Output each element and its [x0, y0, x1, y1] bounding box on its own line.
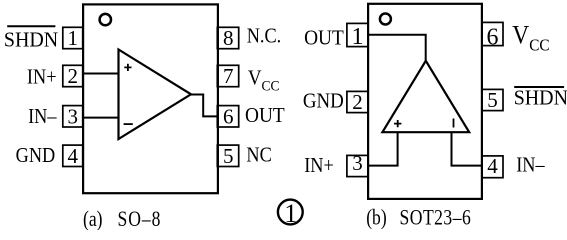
svg-text:1: 1: [352, 24, 364, 50]
svg-text:2: 2: [352, 90, 363, 114]
svg-text:1: 1: [67, 26, 78, 50]
svg-text:IN+: IN+: [304, 154, 334, 177]
svg-text:NC: NC: [246, 143, 271, 166]
svg-text:4: 4: [67, 144, 78, 168]
svg-text:SHDN: SHDN: [4, 29, 58, 52]
svg-text:3: 3: [67, 104, 78, 128]
svg-text:GND: GND: [16, 144, 56, 167]
svg-text:OUT: OUT: [245, 105, 285, 128]
svg-text:GND: GND: [303, 90, 344, 113]
svg-text:N.C.: N.C.: [247, 24, 282, 47]
svg-text:SO–8: SO–8: [118, 207, 162, 230]
svg-text:7: 7: [223, 64, 234, 88]
svg-text:5: 5: [487, 88, 498, 112]
svg-text:IN–: IN–: [516, 153, 545, 176]
svg-text:6: 6: [223, 104, 234, 128]
svg-text:6: 6: [487, 25, 499, 51]
svg-text:2: 2: [67, 64, 78, 88]
svg-text:3: 3: [352, 151, 363, 175]
svg-text:IN–: IN–: [28, 105, 57, 128]
svg-text:4: 4: [487, 154, 498, 178]
svg-text:IN+: IN+: [27, 65, 57, 88]
svg-text:(a): (a): [83, 207, 103, 230]
svg-text:1: 1: [284, 199, 297, 228]
svg-text:SHDN: SHDN: [514, 87, 567, 110]
svg-text:(b): (b): [366, 206, 387, 230]
svg-text:8: 8: [223, 26, 234, 50]
svg-text:OUT: OUT: [304, 27, 344, 50]
svg-text:SOT23–6: SOT23–6: [400, 206, 472, 230]
svg-text:5: 5: [223, 144, 234, 168]
